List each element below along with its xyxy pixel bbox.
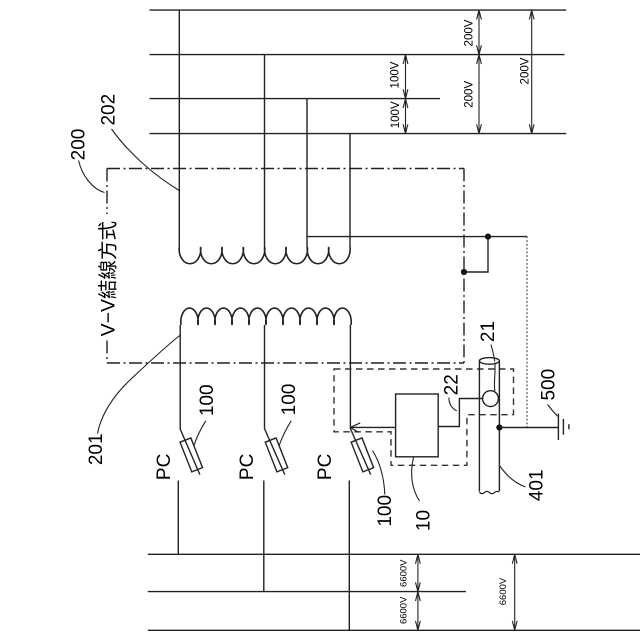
measure arrow 100V bus3-bus4 [403,99,408,134]
bus line C (6600V) [148,629,640,631]
leader for label 202 [112,129,181,191]
measure arrow 6600V busA-busC [512,554,517,630]
winding 202 (secondary coil) [179,247,350,264]
svg-text:PC: PC [315,454,336,480]
wire device 10 to switch 22 [438,399,482,427]
switch contact 21 circle [483,391,499,407]
wire dropper bus1 to winding 202 left end [178,10,180,247]
leader for label 22 [449,398,457,411]
svg-text:V−V結線方式: V−V結線方式 [98,221,120,336]
measure arrow 200V bus1-bus2 [477,10,482,55]
leader for label 200 [79,161,105,193]
bus line 3 (neutral) [150,98,441,100]
bus line 1 (secondary 200V bus) [150,9,567,11]
leader for label 21 [491,345,495,362]
node junction A [485,234,491,240]
leader for label 10 [412,458,420,502]
wire branch to device [464,237,488,272]
wire with arrow from device 10 to fuse 3 [350,423,395,433]
svg-text:201: 201 [86,433,107,465]
wire primary phase 2 [264,325,266,429]
svg-text:100V: 100V [390,101,402,128]
fuse PC 100 #2 [265,429,288,475]
svg-text:500: 500 [539,369,560,401]
ground 500 symbol [558,414,569,440]
bus line 4 [150,133,567,135]
lever of switch 21 [493,363,496,392]
fuse PC 100 #1 [180,429,203,475]
leader for label 500 [548,405,558,417]
svg-text:401: 401 [527,469,548,501]
dotted grounding path [526,237,528,428]
svg-text:10: 10 [414,510,435,531]
svg-text:200V: 200V [464,81,476,108]
leader for label 100 #2 [279,421,291,446]
boundary 200 dash-dot box (transformer unit) [107,169,464,364]
wire primary phase 3 [349,325,351,429]
svg-text:6600V: 6600V [399,596,410,624]
svg-text:22: 22 [442,374,463,395]
node junction ground [496,424,502,430]
fuse PC 100 #3 [350,429,373,475]
svg-text:6600V: 6600V [498,577,509,605]
wire to ground [499,427,558,429]
wire below fuse 2 [263,481,265,592]
svg-text:100: 100 [279,384,300,416]
wire below fuse 1 [177,481,179,555]
support bar 401 [479,358,499,494]
bus line A (6600V) [148,553,640,555]
leader for label 100 #1 [194,421,206,446]
svg-text:200V: 200V [464,19,476,46]
measure arrow 100V bus2-bus3 [403,55,408,99]
bus line 2 [150,54,565,56]
svg-text:200V: 200V [520,57,532,84]
wire dropper bus4 to winding 202 right end [349,134,351,247]
leader for label 100 #3 [373,451,385,495]
svg-text:21: 21 [478,321,499,342]
node junction B [461,269,467,275]
svg-text:202: 202 [99,94,120,126]
svg-text:PC: PC [154,454,175,480]
bus line B (6600V) [148,591,466,593]
svg-text:PC: PC [237,454,258,480]
svg-text:100: 100 [197,384,218,416]
svg-text:6600V: 6600V [399,559,410,587]
leader for label 201 [98,335,182,434]
measure arrow 6600V busA-busB [416,554,421,591]
wire dropper bus3 to winding 202 tap (neutral) [306,99,308,247]
measure arrow 200V bus1-bus4 [529,10,534,134]
wire primary phase 1 [179,325,181,429]
leader for label 401 [499,466,525,488]
measure arrow 200V bus2-bus4 [477,55,482,134]
svg-text:100V: 100V [390,61,402,88]
wire below fuse 3 [348,481,350,631]
winding 201 (primary coil) [181,308,351,325]
measure arrow 6600V busB-busC [416,592,421,631]
svg-text:100: 100 [375,495,396,527]
boundary device dashed box [334,369,514,465]
device box 10 [396,394,439,457]
wire dropper bus2 to winding 202 tap [264,55,266,247]
svg-text:200: 200 [68,129,89,161]
wire neutral horizontal [307,236,527,238]
